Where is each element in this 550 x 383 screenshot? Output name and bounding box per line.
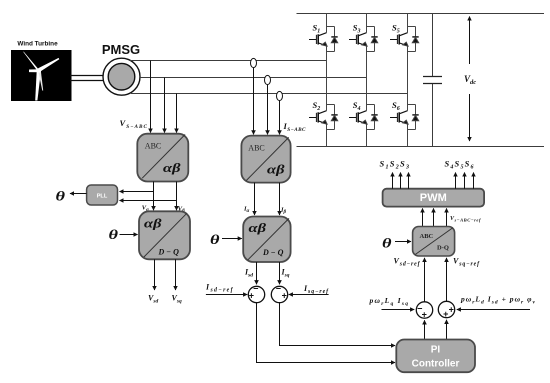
svg-text:ABC: ABC (420, 233, 434, 240)
svg-text:ABC: ABC (248, 143, 264, 152)
svg-text:IS−ABC: IS−ABC (283, 121, 307, 133)
svg-text:D-Q: D-Q (437, 245, 449, 252)
svg-text:θ: θ (382, 237, 392, 252)
svg-text:+: + (422, 310, 427, 320)
svg-text:Vsq: Vsq (172, 294, 182, 305)
svg-text:D − Q: D − Q (158, 248, 180, 257)
svg-text:PLL: PLL (97, 194, 108, 200)
svg-text:Isd−ref: Isd−ref (205, 283, 234, 294)
svg-text:Iβ: Iβ (280, 207, 287, 216)
svg-text:pωrLq Isq: pωrLq Isq (369, 296, 409, 307)
svg-text:αβ: αβ (267, 163, 285, 177)
svg-text:+: + (249, 290, 254, 300)
svg-text:αβ: αβ (249, 221, 267, 235)
svg-text:αβ: αβ (163, 161, 181, 175)
svg-text:+: + (282, 290, 287, 300)
svg-text:pωrLd Isd + pωr φv: pωrLd Isd + pωr φv (460, 295, 536, 306)
svg-text:S4S5S6: S4S5S6 (445, 159, 474, 171)
svg-text:+: + (443, 309, 448, 319)
svg-text:Controller: Controller (412, 359, 460, 370)
svg-text:Vsd: Vsd (148, 294, 158, 305)
svg-text:S1S2S3: S1S2S3 (380, 159, 410, 171)
svg-text:PMSG: PMSG (102, 42, 140, 57)
svg-text:+: + (449, 305, 454, 315)
svg-text:αβ: αβ (144, 217, 162, 231)
svg-text:Iα: Iα (243, 206, 250, 215)
svg-text:Vs−ABC−ref: Vs−ABC−ref (450, 216, 481, 222)
svg-text:Isq: Isq (281, 268, 290, 279)
svg-text:Vsd−ref: Vsd−ref (394, 257, 421, 268)
svg-text:Wind Turbine: Wind Turbine (17, 41, 58, 48)
svg-text:D − Q: D − Q (262, 248, 284, 257)
svg-text:PWM: PWM (420, 192, 447, 204)
svg-text:−: − (276, 283, 281, 293)
svg-text:Isq−ref: Isq−ref (303, 284, 329, 295)
svg-text:Vsq−ref: Vsq−ref (453, 257, 480, 268)
svg-text:Isd: Isd (244, 268, 253, 279)
svg-text:θ: θ (109, 228, 119, 243)
svg-text:θ: θ (56, 189, 66, 204)
svg-text:PI: PI (431, 345, 441, 356)
svg-text:VS−ABC: VS−ABC (120, 118, 148, 130)
svg-text:ABC: ABC (145, 142, 161, 151)
svg-text:θ: θ (210, 233, 220, 248)
svg-text:Vdc: Vdc (464, 74, 476, 86)
